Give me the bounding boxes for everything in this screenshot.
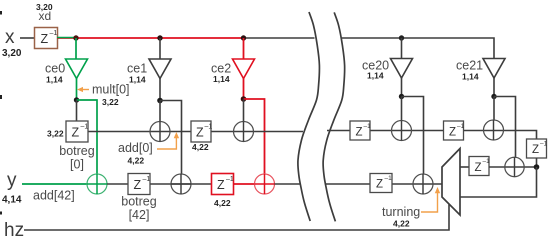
svg-text:3,20: 3,20 <box>2 48 22 59</box>
svg-text:4,14: 4,14 <box>2 195 22 206</box>
wire lower bus right of break <box>325 183 442 185</box>
wire ce0 node to botreg0 <box>76 100 78 121</box>
svg-text:4,22: 4,22 <box>393 219 410 229</box>
wire ce1 stub <box>159 38 161 59</box>
svg-text:–1: –1 <box>226 176 234 183</box>
svg-text:ce21: ce21 <box>456 59 483 73</box>
svg-text:xd: xd <box>39 9 52 23</box>
svg-text:Z: Z <box>196 126 204 140</box>
node ce1 out <box>157 98 163 104</box>
adder lower ce1 column <box>171 174 191 194</box>
svg-text:Z: Z <box>41 32 49 46</box>
svg-text:x: x <box>5 27 15 48</box>
svg-text:[42]: [42] <box>129 208 150 222</box>
multiplier ce1 <box>149 59 171 79</box>
wire ce2 node to adder <box>243 99 245 122</box>
register xd (Z^-1) <box>35 28 58 49</box>
register Z row2 <box>469 157 490 176</box>
wire ce1 out <box>159 79 161 101</box>
multiplier ce21 <box>483 59 505 79</box>
svg-text:botreg: botreg <box>59 144 94 158</box>
svg-text:Z: Z <box>217 178 225 192</box>
register Z 4,22 upper <box>191 121 212 142</box>
edge artifact left-low <box>0 212 2 215</box>
svg-text:hz: hz <box>4 220 24 239</box>
svg-text:4,22: 4,22 <box>128 156 145 166</box>
wire ce2 stub red <box>243 38 245 59</box>
svg-text:1,14: 1,14 <box>129 75 146 85</box>
svg-text:Z: Z <box>356 127 363 139</box>
svg-text:add[42]: add[42] <box>33 189 75 203</box>
svg-text:turning: turning <box>382 205 420 219</box>
register botreg0 <box>66 121 88 142</box>
mux turning <box>442 149 460 216</box>
wire ce20 stub <box>401 38 403 59</box>
wire ce2 out red <box>243 79 245 100</box>
break curve 1 <box>298 12 320 221</box>
adder lower right <box>413 174 433 194</box>
edge artifact top-left <box>0 11 2 15</box>
svg-text:–1: –1 <box>385 175 393 182</box>
break curve 2 <box>323 12 345 221</box>
svg-text:–1: –1 <box>483 158 491 165</box>
annotation turning arrow <box>421 187 440 212</box>
svg-text:ce1: ce1 <box>127 62 147 76</box>
wire ce21 node to adder <box>493 97 495 121</box>
wire ce2 red elbow down <box>244 99 265 175</box>
node top tap ce1 <box>157 35 162 40</box>
svg-text:3,22: 3,22 <box>102 97 119 107</box>
edge artifact left-mid <box>0 95 2 99</box>
node top tap ce20 <box>399 35 404 40</box>
svg-text:Z: Z <box>475 162 482 174</box>
node ce0 out <box>74 97 79 102</box>
register Z right1 <box>350 121 371 140</box>
wire top bus black (ce2 tap to break) <box>244 37 315 39</box>
svg-text:3,22: 3,22 <box>47 129 64 139</box>
register botreg42 <box>128 174 150 195</box>
wire feedback node down to mux bottom <box>460 167 537 197</box>
node ce2 out <box>241 96 247 102</box>
node top tap ce0 <box>73 35 78 40</box>
svg-text:mult[0]: mult[0] <box>92 83 130 97</box>
wire red adder to break <box>275 183 301 185</box>
svg-text:–1: –1 <box>457 123 465 130</box>
svg-text:Z: Z <box>376 179 383 191</box>
wire ce20 node to adder <box>401 97 403 122</box>
svg-text:1,14: 1,14 <box>367 71 384 81</box>
svg-text:–1: –1 <box>540 141 548 148</box>
wire ce21 out <box>493 78 495 97</box>
wire green overlay xd to node <box>57 37 76 39</box>
node ce20 out <box>399 94 404 99</box>
wire mux out to hz <box>24 205 449 231</box>
adder ce21 column upper <box>484 120 504 140</box>
wire upper bus right <box>327 131 537 140</box>
wire ce20 out <box>401 78 403 97</box>
svg-text:1,14: 1,14 <box>213 74 230 84</box>
adder ce20 column upper <box>392 121 412 141</box>
wire y green <box>22 183 87 185</box>
wire row2 mux to z <box>460 166 469 168</box>
wire top bus black (after break to ce21 corner) <box>341 38 495 59</box>
svg-text:Z: Z <box>134 178 142 192</box>
svg-text:ce0: ce0 <box>45 62 65 76</box>
node row2 <box>534 164 540 170</box>
svg-text:1,14: 1,14 <box>462 72 479 82</box>
svg-text:1,14: 1,14 <box>46 75 63 85</box>
register Z far right top <box>527 139 548 158</box>
svg-text:4,22: 4,22 <box>192 142 209 152</box>
adder add0 <box>150 122 170 142</box>
annotation add[0] arrow <box>157 132 179 149</box>
register Z lower right <box>370 174 392 193</box>
wire ce1 elbow down <box>160 101 182 175</box>
svg-text:–1: –1 <box>50 30 58 37</box>
wire upper bus left <box>88 131 303 133</box>
wire row2 bus <box>489 166 537 168</box>
multiplier ce20 <box>391 59 413 79</box>
wire lower bus black <box>107 183 212 185</box>
svg-text:Z: Z <box>72 126 80 140</box>
wire x to xd <box>20 37 35 39</box>
wire ce21 elbow down <box>494 97 516 158</box>
wire green elbow to add42 <box>77 100 98 175</box>
wire ce0 stub green <box>75 38 77 59</box>
wire red z to red adder <box>234 183 255 185</box>
svg-text:add[0]: add[0] <box>118 141 153 155</box>
adder red <box>255 174 275 194</box>
annotation mult[0] arrow <box>77 87 89 92</box>
svg-text:Z: Z <box>449 127 456 139</box>
wire ce0 out green <box>76 79 78 101</box>
multiplier ce0 <box>66 59 88 79</box>
wire ce1 node to add0 <box>159 101 161 122</box>
svg-text:–1: –1 <box>143 176 151 183</box>
node ce21 out <box>491 94 496 99</box>
svg-text:[0]: [0] <box>70 158 84 172</box>
svg-text:y: y <box>7 170 17 191</box>
svg-text:4,22: 4,22 <box>214 198 231 208</box>
svg-text:botreg: botreg <box>121 195 156 209</box>
wire top bus red (xd out to ce2 tap) <box>57 37 244 39</box>
wire far z to node <box>536 158 538 167</box>
adder add42 green <box>87 174 107 194</box>
svg-text:Z: Z <box>532 144 539 156</box>
svg-text:–1: –1 <box>364 123 372 130</box>
wire ce20 elbow down <box>402 97 424 175</box>
svg-text:–1: –1 <box>205 124 213 131</box>
adder upper ce2 column <box>234 122 254 142</box>
register Z right2 <box>444 121 465 140</box>
svg-text:–1: –1 <box>81 124 89 131</box>
node top tap ce2 <box>241 35 246 40</box>
adder row2 <box>505 157 524 176</box>
multiplier ce2 <box>233 59 255 79</box>
register red Z 4,22 <box>212 174 234 195</box>
